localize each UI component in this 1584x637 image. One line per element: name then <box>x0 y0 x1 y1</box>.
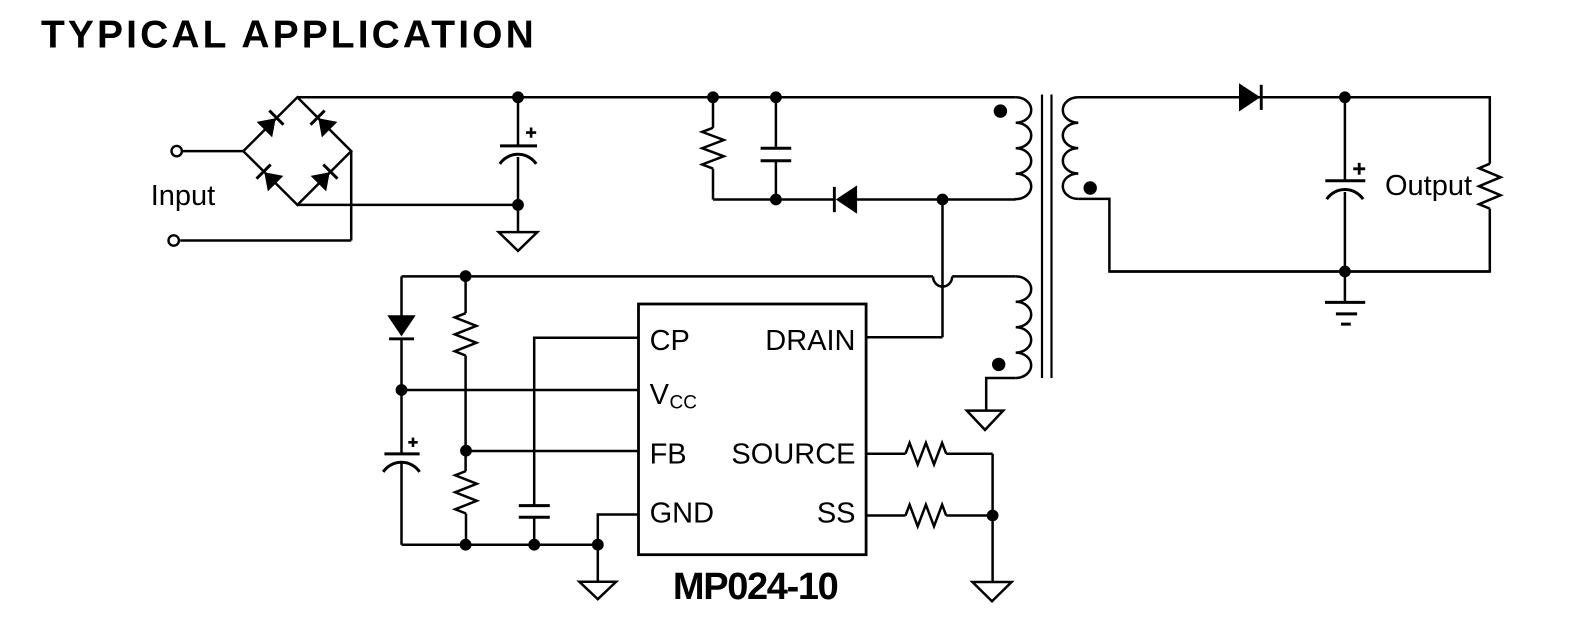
svg-text:FB: FB <box>650 438 687 470</box>
svg-text:Input: Input <box>151 180 216 212</box>
svg-text:SS: SS <box>817 498 856 530</box>
svg-text:MP024-10: MP024-10 <box>673 566 838 608</box>
svg-text:CC: CC <box>670 392 697 413</box>
svg-text:SOURCE: SOURCE <box>731 438 855 470</box>
svg-text:TYPICAL APPLICATION: TYPICAL APPLICATION <box>41 14 537 57</box>
svg-text:GND: GND <box>650 498 714 530</box>
svg-text:V: V <box>650 379 670 411</box>
svg-text:CP: CP <box>650 325 690 357</box>
svg-text:DRAIN: DRAIN <box>765 325 855 357</box>
svg-text:Output: Output <box>1385 170 1472 202</box>
